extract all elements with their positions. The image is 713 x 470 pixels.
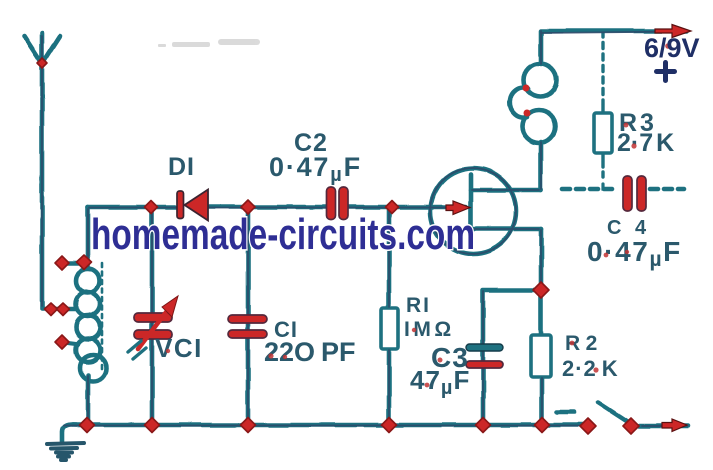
svg-text:22OPF: 22OPF (264, 337, 356, 367)
svg-text:RI: RI (406, 294, 431, 317)
svg-text:0·47µF: 0·47µF (587, 236, 682, 271)
svg-text:VCI: VCI (155, 333, 203, 363)
svg-text:0·47µF: 0·47µF (269, 152, 362, 186)
svg-text:2·2K: 2·2K (562, 356, 619, 381)
svg-text:homemade-circuits.com: homemade-circuits.com (91, 210, 475, 259)
svg-text:IMΩ: IMΩ (404, 318, 455, 341)
svg-text:6/9V: 6/9V (644, 33, 700, 63)
svg-text:47µF: 47µF (410, 365, 470, 399)
svg-text:DI: DI (168, 153, 195, 181)
svg-text:2·7K: 2·7K (617, 129, 674, 157)
